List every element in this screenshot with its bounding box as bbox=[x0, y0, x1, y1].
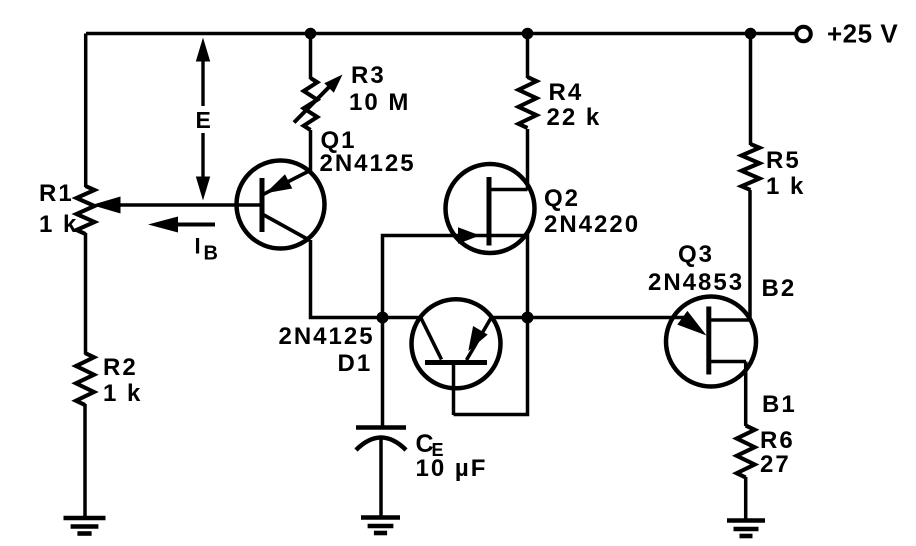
wire R2 to ground bbox=[83, 404, 87, 518]
svg-text:Q2: Q2 bbox=[544, 185, 580, 212]
wire left branch from rail to R1 bbox=[84, 34, 88, 188]
label Q1 part 2N4125 bbox=[320, 150, 416, 177]
label I_B bbox=[195, 234, 218, 265]
resistor R6 27 bbox=[737, 426, 755, 478]
resistor R3 10 M (variable) bbox=[304, 78, 318, 130]
ground below CE bbox=[361, 518, 400, 534]
junction dot rail-R5 bbox=[745, 28, 757, 40]
wire node A to D1 collector bbox=[383, 316, 423, 320]
R1 wiper arrowhead bbox=[92, 197, 121, 214]
svg-text:D1: D1 bbox=[338, 350, 373, 377]
svg-text:10 M: 10 M bbox=[349, 89, 410, 116]
wire node A up and across to Q2 gate and source then down to node B bbox=[383, 236, 528, 318]
svg-text:B: B bbox=[204, 243, 218, 265]
svg-text:B1: B1 bbox=[762, 391, 797, 418]
wire Q2 drain to R4 bbox=[526, 129, 530, 190]
svg-text:22 k: 22 k bbox=[547, 104, 602, 131]
R3 adjustment arrow bbox=[294, 75, 343, 123]
svg-text:R2: R2 bbox=[103, 354, 138, 381]
label R3 bbox=[351, 62, 386, 89]
svg-text:R3: R3 bbox=[351, 62, 386, 89]
resistor R2 1 k bbox=[76, 353, 94, 405]
wire rail to R5 bbox=[749, 34, 753, 146]
label Q2 bbox=[544, 185, 580, 212]
label R4 value 22 k bbox=[547, 104, 602, 131]
current arrow IB bbox=[148, 217, 215, 233]
wire D1 base loop to node B bbox=[454, 318, 528, 415]
svg-text:E: E bbox=[196, 107, 211, 133]
wire Q3 B1 to R6 bbox=[744, 362, 748, 427]
label R1 value 1 k bbox=[39, 211, 78, 238]
ground below R2 bbox=[64, 518, 106, 534]
svg-text:2N4853: 2N4853 bbox=[648, 269, 744, 296]
wire Q3 B2 to R5 bbox=[748, 190, 752, 320]
label R5 value 1 k bbox=[766, 173, 805, 200]
label Q3 bbox=[678, 241, 714, 268]
label R5 bbox=[766, 147, 801, 174]
svg-text:2N4125: 2N4125 bbox=[279, 323, 375, 350]
label Q2 part 2N4220 bbox=[544, 211, 640, 238]
svg-text:B2: B2 bbox=[762, 275, 797, 302]
label R3 value 10 M bbox=[349, 89, 410, 116]
wire Q1 base to R1 wiper bbox=[119, 203, 262, 207]
svg-text:R1: R1 bbox=[39, 180, 74, 207]
svg-text:+25 V: +25 V bbox=[827, 19, 898, 49]
wire R6 to ground bbox=[744, 477, 748, 521]
wire top supply rail bbox=[86, 32, 794, 36]
power terminal +25 V bbox=[794, 27, 811, 42]
label B1 bbox=[762, 391, 797, 418]
transistor D1 2N4125 diode-connected bbox=[412, 299, 501, 415]
svg-text:1 k: 1 k bbox=[103, 380, 142, 407]
junction dot rail-R3 bbox=[305, 28, 317, 40]
wire node B to Q3 emitter bbox=[528, 316, 687, 320]
wire Q1 collector to node A bbox=[311, 240, 384, 318]
dimension arrow E (rail to base wire) bbox=[196, 38, 210, 201]
svg-text:R6: R6 bbox=[760, 427, 795, 454]
wire node A to capacitor CE bbox=[381, 318, 385, 428]
resistor R1 1 k (potentiometer) bbox=[77, 186, 95, 234]
label D1 part 2N4125 bbox=[279, 323, 375, 350]
svg-text:27: 27 bbox=[760, 451, 791, 478]
wire R1 bottom to R2 bbox=[84, 233, 88, 354]
junction dot rail-R4 bbox=[522, 28, 534, 40]
capacitor CE 10 uF bbox=[356, 428, 406, 451]
node A dot (Q1 collector / D1 collector / CE / Q2 gate) bbox=[377, 312, 389, 324]
ground below R6 bbox=[727, 521, 765, 537]
wire D1 emitter to node B bbox=[490, 316, 528, 320]
svg-text:R5: R5 bbox=[766, 147, 801, 174]
label Q3 part 2N4853 bbox=[648, 269, 744, 296]
wire CE to ground bbox=[379, 438, 383, 518]
svg-text:2N4220: 2N4220 bbox=[544, 211, 640, 238]
label B2 bbox=[762, 275, 797, 302]
transistor Q1 2N4125 PNP bbox=[237, 161, 325, 249]
wire Q1 emitter to R3 bbox=[309, 130, 313, 171]
svg-text:10 µF: 10 µF bbox=[416, 455, 488, 482]
wire rail to R4 bbox=[526, 34, 530, 79]
node B dot (Q2 source / D1 emitter / Q3 emitter) bbox=[522, 312, 534, 324]
svg-text:R4: R4 bbox=[549, 79, 584, 106]
label R6 bbox=[760, 427, 795, 454]
svg-text:I: I bbox=[195, 234, 201, 259]
resistor R4 22 k bbox=[519, 77, 537, 128]
label R1 bbox=[39, 180, 74, 207]
label CE bbox=[416, 430, 444, 460]
svg-text:1 k: 1 k bbox=[766, 173, 805, 200]
svg-text:2N4125: 2N4125 bbox=[320, 150, 416, 177]
wire rail to R3 bbox=[309, 34, 313, 80]
transistor Q2 2N4220 JFET bbox=[446, 164, 535, 253]
label R2 bbox=[103, 354, 138, 381]
svg-text:1 k: 1 k bbox=[39, 211, 78, 238]
label D1 bbox=[338, 350, 373, 377]
resistor R5 1 k bbox=[742, 144, 760, 190]
label R6 value 27 bbox=[760, 451, 791, 478]
label R4 bbox=[549, 79, 584, 106]
label CE value 10 uF bbox=[416, 455, 488, 482]
label +25 V bbox=[827, 19, 898, 49]
label R2 value 1 k bbox=[103, 380, 142, 407]
svg-text:Q3: Q3 bbox=[678, 241, 714, 268]
label E bbox=[196, 107, 211, 133]
label Q1 bbox=[321, 127, 357, 154]
transistor Q3 2N4853 UJT bbox=[666, 297, 756, 387]
